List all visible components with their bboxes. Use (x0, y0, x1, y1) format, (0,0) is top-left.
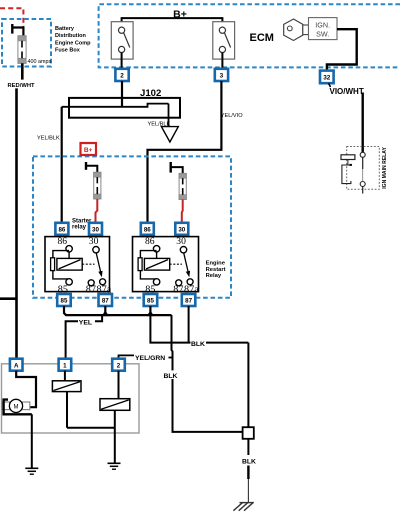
svg-text:YEL/BLK: YEL/BLK (37, 135, 60, 141)
connector pin 30 relay1 (89, 223, 102, 235)
wire to fuse2 (171, 167, 183, 173)
svg-text:BLK: BLK (164, 373, 178, 380)
wire IGN SW to pin 32 (327, 29, 357, 70)
svg-text:86: 86 (58, 236, 68, 247)
switch contact S1 (111, 22, 133, 69)
svg-text:2: 2 (117, 362, 121, 369)
wire coil2 down (114, 410, 116, 427)
label YEL (78, 318, 95, 327)
label BLK below YEL/GRN (163, 370, 179, 379)
battery distribution fuse box (dashed) (2, 19, 51, 67)
svg-text:30: 30 (176, 236, 186, 247)
IGN main relay dashed box (347, 147, 380, 190)
svg-text:30: 30 (178, 226, 185, 233)
svg-text:400 amps: 400 amps (28, 59, 52, 65)
label Engine Restart Relay (206, 260, 226, 279)
wire from terminal to fuse (12, 28, 23, 37)
connector pin 3 (215, 69, 228, 81)
svg-text:87: 87 (185, 298, 192, 305)
connector pin 86 relay2 (141, 223, 154, 235)
IGN main relay internals (341, 152, 365, 193)
relay U2 engine restart relay box (133, 236, 200, 296)
svg-text:86: 86 (144, 226, 151, 233)
junction box bottom right (243, 427, 254, 439)
relay U1 starter relay box (45, 236, 112, 296)
wire red fuse1 to 30 (96, 199, 98, 223)
svg-text:B+: B+ (173, 9, 187, 21)
splice triangle (161, 127, 178, 142)
fuse F1 (94, 172, 101, 199)
connector pin 85 relay1 (57, 294, 70, 306)
svg-text:2: 2 (120, 73, 124, 80)
svg-text:BLK: BLK (242, 458, 256, 465)
label Starter relay (72, 218, 92, 230)
svg-text:3: 3 (220, 73, 224, 80)
terminal bar fuse2 (169, 162, 171, 173)
svg-text:87: 87 (86, 284, 96, 295)
svg-text:B+: B+ (84, 147, 93, 154)
wire coil bus (67, 427, 115, 429)
ECM / B+ outer dashed box (99, 4, 400, 67)
svg-text:86: 86 (145, 236, 155, 247)
switch contact S2 (213, 22, 235, 69)
wire BLK to ground (247, 439, 249, 502)
svg-text:30: 30 (89, 236, 99, 247)
svg-text:87: 87 (102, 298, 109, 305)
connector pin 87 relay1 (99, 294, 113, 306)
wire BLK down to junction box (247, 343, 249, 428)
ground G2 (108, 463, 121, 469)
wire YEL stub to pin 1 (66, 315, 103, 359)
label Battery Distribution Engine Comp Fuse Box (55, 26, 91, 54)
fuse F2 (179, 173, 186, 199)
svg-text:relay: relay (72, 225, 87, 231)
terminal bar T1 (11, 24, 13, 34)
wire B+ (122, 18, 223, 27)
svg-text:Relay: Relay (206, 273, 222, 279)
connector pin A (10, 359, 23, 371)
wire YEL bus (64, 306, 154, 316)
coil L1 (52, 381, 81, 392)
wire motor to ground (4, 400, 32, 468)
connector pin 2 (115, 69, 128, 81)
wire RED/WHT (21, 63, 24, 79)
ground G1 (25, 468, 38, 474)
wire YEL/VIO (pin3 to 86 relay2) (148, 81, 222, 223)
wire pin2 to J102 (121, 81, 123, 107)
svg-text:YEL/GRN: YEL/GRN (135, 355, 165, 362)
svg-text:85: 85 (147, 298, 154, 305)
svg-text:Battery: Battery (55, 26, 75, 32)
wire J102 out to triangle (168, 104, 170, 127)
splice J102 body (62, 98, 180, 118)
connector pin 2 lower (112, 359, 125, 371)
connector pin 1 (59, 359, 72, 371)
B+ tag red box (81, 143, 97, 155)
svg-text:YEL: YEL (79, 319, 92, 326)
coil L2 (100, 399, 130, 411)
svg-text:ECM: ECM (250, 32, 274, 44)
svg-text:86: 86 (58, 226, 65, 233)
wire to ground G2 (114, 428, 116, 463)
svg-text:32: 32 (323, 75, 331, 82)
terminal bar fuse1 (85, 162, 87, 170)
svg-text:Engine Comp: Engine Comp (55, 40, 91, 46)
svg-text:YEL/VIO: YEL/VIO (221, 113, 243, 119)
wire VIO/WHT stub (329, 83, 331, 87)
svg-text:RED/WHT: RED/WHT (8, 83, 36, 89)
svg-text:IGN.: IGN. (315, 21, 330, 30)
wire to fuse1 (86, 166, 97, 173)
svg-text:Distribution: Distribution (55, 33, 86, 39)
svg-text:IGN MAIN RELAY: IGN MAIN RELAY (382, 147, 388, 189)
wire A to motor (16, 371, 36, 408)
wire YEL/GRN stub from pin2 (119, 355, 135, 358)
fuse 400A body (18, 36, 26, 64)
svg-text:85: 85 (61, 298, 68, 305)
svg-text:Restart: Restart (206, 267, 226, 273)
label YEL/GRN (135, 353, 169, 362)
svg-text:1: 1 (63, 362, 67, 369)
IGN SW box (309, 18, 338, 40)
connector pin 87 relay2 (182, 294, 196, 306)
wire coil1 down (66, 392, 68, 428)
wire red fuse2 to 30 (181, 200, 184, 223)
starter housing box (2, 364, 140, 433)
connector pin 86 relay1 (55, 223, 68, 235)
wire pin2 to coil2 (118, 371, 120, 399)
svg-text:BLK: BLK (191, 341, 205, 348)
wire red dashed B+ feed (0, 8, 23, 27)
ignition key symbol (284, 19, 309, 41)
svg-text:30: 30 (92, 226, 99, 233)
connector pin 32 (320, 71, 334, 84)
svg-text:M: M (14, 404, 19, 410)
motor M (2, 399, 30, 412)
svg-text:SW.: SW. (316, 29, 329, 38)
svg-text:VIO/WHT: VIO/WHT (330, 87, 364, 96)
wire junction to BLK row (150, 315, 248, 343)
svg-text:Fuse Box: Fuse Box (55, 48, 81, 54)
wire YEL/GRN vertical (172, 315, 244, 432)
svg-text:A: A (14, 362, 19, 369)
connector pin 85 relay2 (144, 294, 158, 306)
wire 87 relay2 drop (188, 306, 190, 343)
ground G3 chassis (233, 502, 253, 511)
wire YEL bus to YEL/GRN leg (150, 314, 171, 316)
wire pin1 to coil1 (64, 371, 66, 381)
wire VIO/WHT down (362, 93, 364, 153)
wire YEL/BLK left (J102 to 86 relay1) (61, 107, 63, 223)
engine restart relay dashed box (33, 156, 231, 297)
connector pin 30 relay2 (175, 223, 188, 235)
label BLK mid (191, 339, 207, 348)
svg-text:Engine: Engine (206, 260, 226, 266)
